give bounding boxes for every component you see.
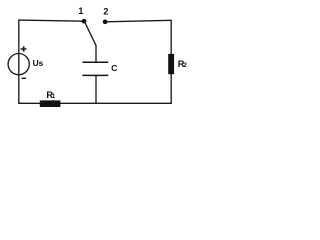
node 2 [103,19,108,24]
svg-text:2: 2 [103,6,108,16]
svg-text:C: C [111,63,118,73]
resistor R2 [168,54,174,74]
wire switch to capacitor [95,45,97,62]
wire bottom [18,102,172,104]
switch arm S [84,21,96,45]
wire left vertical [18,20,20,104]
node 1 [82,19,87,24]
svg-text:1: 1 [78,6,83,16]
capacitor C [82,62,108,75]
wire top-left segment [19,20,84,21]
wire top-right segment [105,20,171,22]
svg-text:Us: Us [33,58,44,68]
wire capacitor to bottom [95,76,97,104]
wire right vertical [170,20,172,104]
resistor R1 [40,100,61,107]
voltage source Us [8,46,44,79]
